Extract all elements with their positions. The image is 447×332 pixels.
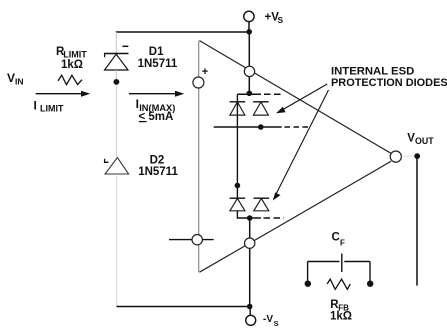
- svg-text:+: +: [202, 66, 208, 78]
- wire: +VS column down into op-amp: [248, 32, 250, 94]
- wire: ESD chain vertical column: [236, 94, 238, 198]
- wire: lower ESD line dashed continuation: [264, 217, 285, 219]
- wire: inverting input stub: [169, 239, 214, 241]
- svg-text:1N5711: 1N5711: [138, 58, 178, 70]
- wire: D1 anode down to input node (faint): [115, 70, 117, 79]
- svg-text:PROTECTION DIODES: PROTECTION DIODES: [331, 77, 447, 89]
- terminal -VS: [246, 307, 256, 326]
- svg-text:S: S: [278, 15, 284, 25]
- wire: input node down to D2 (faint): [115, 85, 117, 157]
- diode D1 1N5711 (Schottky): [104, 46, 129, 70]
- wire: D2 down to -VS rail (faint): [116, 174, 118, 307]
- wire: inverting input line: [214, 126, 282, 128]
- svg-text:IN: IN: [15, 76, 24, 86]
- current arrow IIN(MAX): [129, 91, 184, 97]
- svg-text:C: C: [332, 232, 340, 244]
- svg-text:1kΩ: 1kΩ: [61, 59, 83, 71]
- svg-text:F: F: [340, 238, 345, 247]
- junction: upper-right ESD anode on input line: [258, 124, 264, 130]
- wire: upper ESD rail dashed continuation: [264, 93, 284, 95]
- label <= 5mA: [139, 111, 174, 123]
- pointer arrow: label to lower ESD diodes: [273, 90, 329, 201]
- junction: RFB left node: [305, 281, 311, 287]
- ESD diode upper-right: [253, 102, 269, 115]
- junction: +VS rail / supply column: [246, 29, 252, 35]
- svg-text:1N5711: 1N5711: [138, 166, 178, 178]
- svg-text:-V: -V: [263, 314, 273, 325]
- junction: -VS column on lower ESD line: [247, 215, 253, 221]
- wire: upper ESD rail: [237, 93, 261, 95]
- ESD diode lower-left: [230, 198, 246, 211]
- junction: VOUT node: [414, 153, 420, 159]
- svg-text:D2: D2: [150, 155, 165, 167]
- resistor RFB: [327, 279, 350, 289]
- svg-text:LIMIT: LIMIT: [40, 103, 64, 113]
- svg-text:I: I: [34, 98, 37, 112]
- op-amp output feedthrough circle: [390, 151, 401, 162]
- wire: apex circle to VOUT node (faint): [402, 155, 415, 157]
- svg-text:1kΩ: 1kΩ: [330, 310, 352, 322]
- pointer arrow: label to upper ESD diodes: [276, 84, 327, 113]
- ESD diode lower-right: [254, 198, 270, 211]
- crossover circle: +VS wire through op-amp hypotenuse: [244, 66, 254, 76]
- diode D2 1N5711 (Schottky): [105, 158, 129, 174]
- junction: bottom rail / -VS terminal: [247, 304, 253, 310]
- junction: ESD chain mid dot: [235, 183, 241, 189]
- op-amp U1: [199, 41, 391, 273]
- svg-text:OUT: OUT: [415, 136, 434, 146]
- wire: input line dashed continuation: [285, 126, 309, 128]
- terminal +VS: [244, 11, 254, 32]
- svg-text:V: V: [7, 71, 15, 85]
- junction: RFB right node: [367, 281, 373, 287]
- wire: lower-left ESD anode down and right: [237, 211, 261, 218]
- wire: top rail down to D1 (faint): [115, 32, 117, 54]
- capacitor CF: [308, 254, 370, 284]
- crossover circle: -VS column through op-amp lower edge: [245, 238, 255, 248]
- svg-text:INTERNAL ESD: INTERNAL ESD: [331, 66, 414, 78]
- wire: -VS bottom rail: [117, 306, 250, 308]
- junction: input node dot: [114, 79, 120, 85]
- svg-text:D1: D1: [149, 46, 164, 58]
- wire: -VS column down to bottom rail: [249, 218, 251, 307]
- crossover circle: noninverting input through op-amp left edge: [193, 77, 204, 88]
- crossover circle: inverting stub through op-amp left edge: [192, 235, 202, 245]
- resistor RLIMIT: [58, 75, 82, 84]
- junction: +VS column on upper ESD rail: [247, 91, 253, 97]
- wire: VOUT down: [416, 156, 418, 286]
- wire: +VS top rail: [116, 31, 250, 33]
- current arrow ILIMIT: [36, 91, 90, 97]
- ESD diode upper-left: [230, 102, 246, 115]
- svg-text:S: S: [274, 319, 279, 328]
